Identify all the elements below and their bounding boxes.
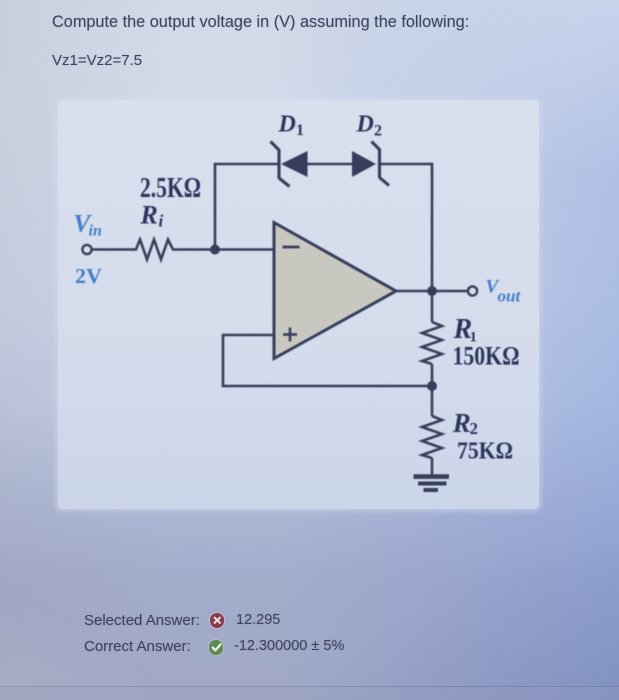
- node A: inverting input junction: [210, 245, 220, 255]
- op-amp U1: [274, 223, 396, 359]
- wire: opamp output to Vout: [396, 290, 468, 293]
- wire: Ri to node A: [177, 248, 215, 251]
- wire: node C down to R2: [431, 386, 434, 416]
- terminal Vout: [468, 286, 477, 295]
- wire: output node down to R1: [431, 291, 434, 322]
- wire: D1 to D2: [308, 163, 353, 166]
- resistor R1 150K: [422, 322, 442, 364]
- resistor R2 75K: [422, 416, 442, 458]
- resistor Ri 2.5K: [132, 240, 177, 260]
- node B: output junction: [427, 286, 437, 296]
- wire: R2 to ground: [431, 458, 434, 477]
- wire: top feedback rail right segment with right vertical: [380, 164, 433, 291]
- terminal Vin: [82, 245, 91, 254]
- zener diode D2: [352, 142, 389, 186]
- node C: R1/R2 junction: [427, 381, 437, 391]
- label D2: [356, 112, 383, 140]
- wire: node A to opamp inverting input: [215, 248, 274, 251]
- label 75K value: [457, 439, 513, 465]
- label Vin: [74, 211, 102, 240]
- label R2: [452, 408, 478, 438]
- label R1: [453, 314, 478, 346]
- label 2.5K value: [140, 173, 201, 204]
- zener diode D1: [271, 142, 308, 187]
- wire: node C to non-inverting input: [223, 335, 432, 386]
- label 150K value: [453, 342, 520, 371]
- incorrect icon: [210, 613, 225, 628]
- label Ri: [140, 201, 164, 231]
- correct icon: [209, 640, 224, 655]
- wire: Vin to Ri: [92, 248, 132, 251]
- label 2V value: [75, 264, 102, 288]
- label D1: [278, 112, 305, 140]
- label Vout: [486, 277, 522, 306]
- ground: [414, 477, 450, 490]
- wire: R1 to node C: [431, 364, 434, 386]
- wire: top feedback rail left segment with left vertical: [215, 164, 279, 249]
